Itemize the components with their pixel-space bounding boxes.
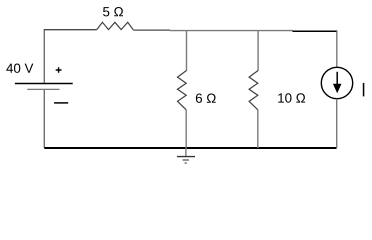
wire: 6 ohm branch upper vertical — [186, 31, 188, 71]
ground stub — [185, 148, 187, 157]
wire: 6 ohm branch lower vertical — [185, 110, 187, 148]
wire: right vertical upper (top wire to current source) — [336, 31, 338, 67]
battery V1 40V positive plate — [15, 83, 73, 85]
ground bar 3 — [185, 162, 187, 164]
label 6 ohm — [196, 93, 216, 102]
wire: top-left horizontal — [44, 29, 97, 31]
current source arrow head — [333, 84, 342, 93]
wire: left vertical lower (battery to bottom wire) — [43, 90, 45, 148]
battery minus sign — [54, 102, 68, 104]
wire: 10 ohm branch lower vertical — [257, 110, 259, 148]
resistor R2 6 ohm (vertical zigzag) — [178, 71, 187, 110]
wire: 10 ohm branch upper vertical — [257, 31, 259, 71]
label 40 V — [6, 63, 33, 72]
current source arrow shaft — [336, 72, 338, 86]
text cursor bar — [363, 83, 365, 97]
battery V1 negative plate — [27, 88, 59, 90]
label 5 ohm — [103, 7, 123, 16]
label 10 ohm — [278, 93, 305, 102]
current source I1 circle — [321, 67, 352, 98]
wire: right vertical lower (current source to bottom wire) — [336, 99, 338, 148]
ground bar 1 — [177, 156, 195, 158]
wire: top middle segment B — [170, 30, 293, 32]
wire: top middle segment A — [133, 29, 170, 31]
wire: top right black segment — [293, 30, 338, 32]
wire: left vertical upper (top wire to battery) — [43, 30, 45, 83]
resistor R3 10 ohm (vertical zigzag) — [249, 71, 258, 110]
battery plus sign — [56, 67, 62, 73]
ground bar 2 — [183, 159, 189, 161]
resistor R1 5 ohm (horizontal zigzag) — [97, 22, 133, 29]
wire: bottom horizontal — [44, 147, 336, 149]
